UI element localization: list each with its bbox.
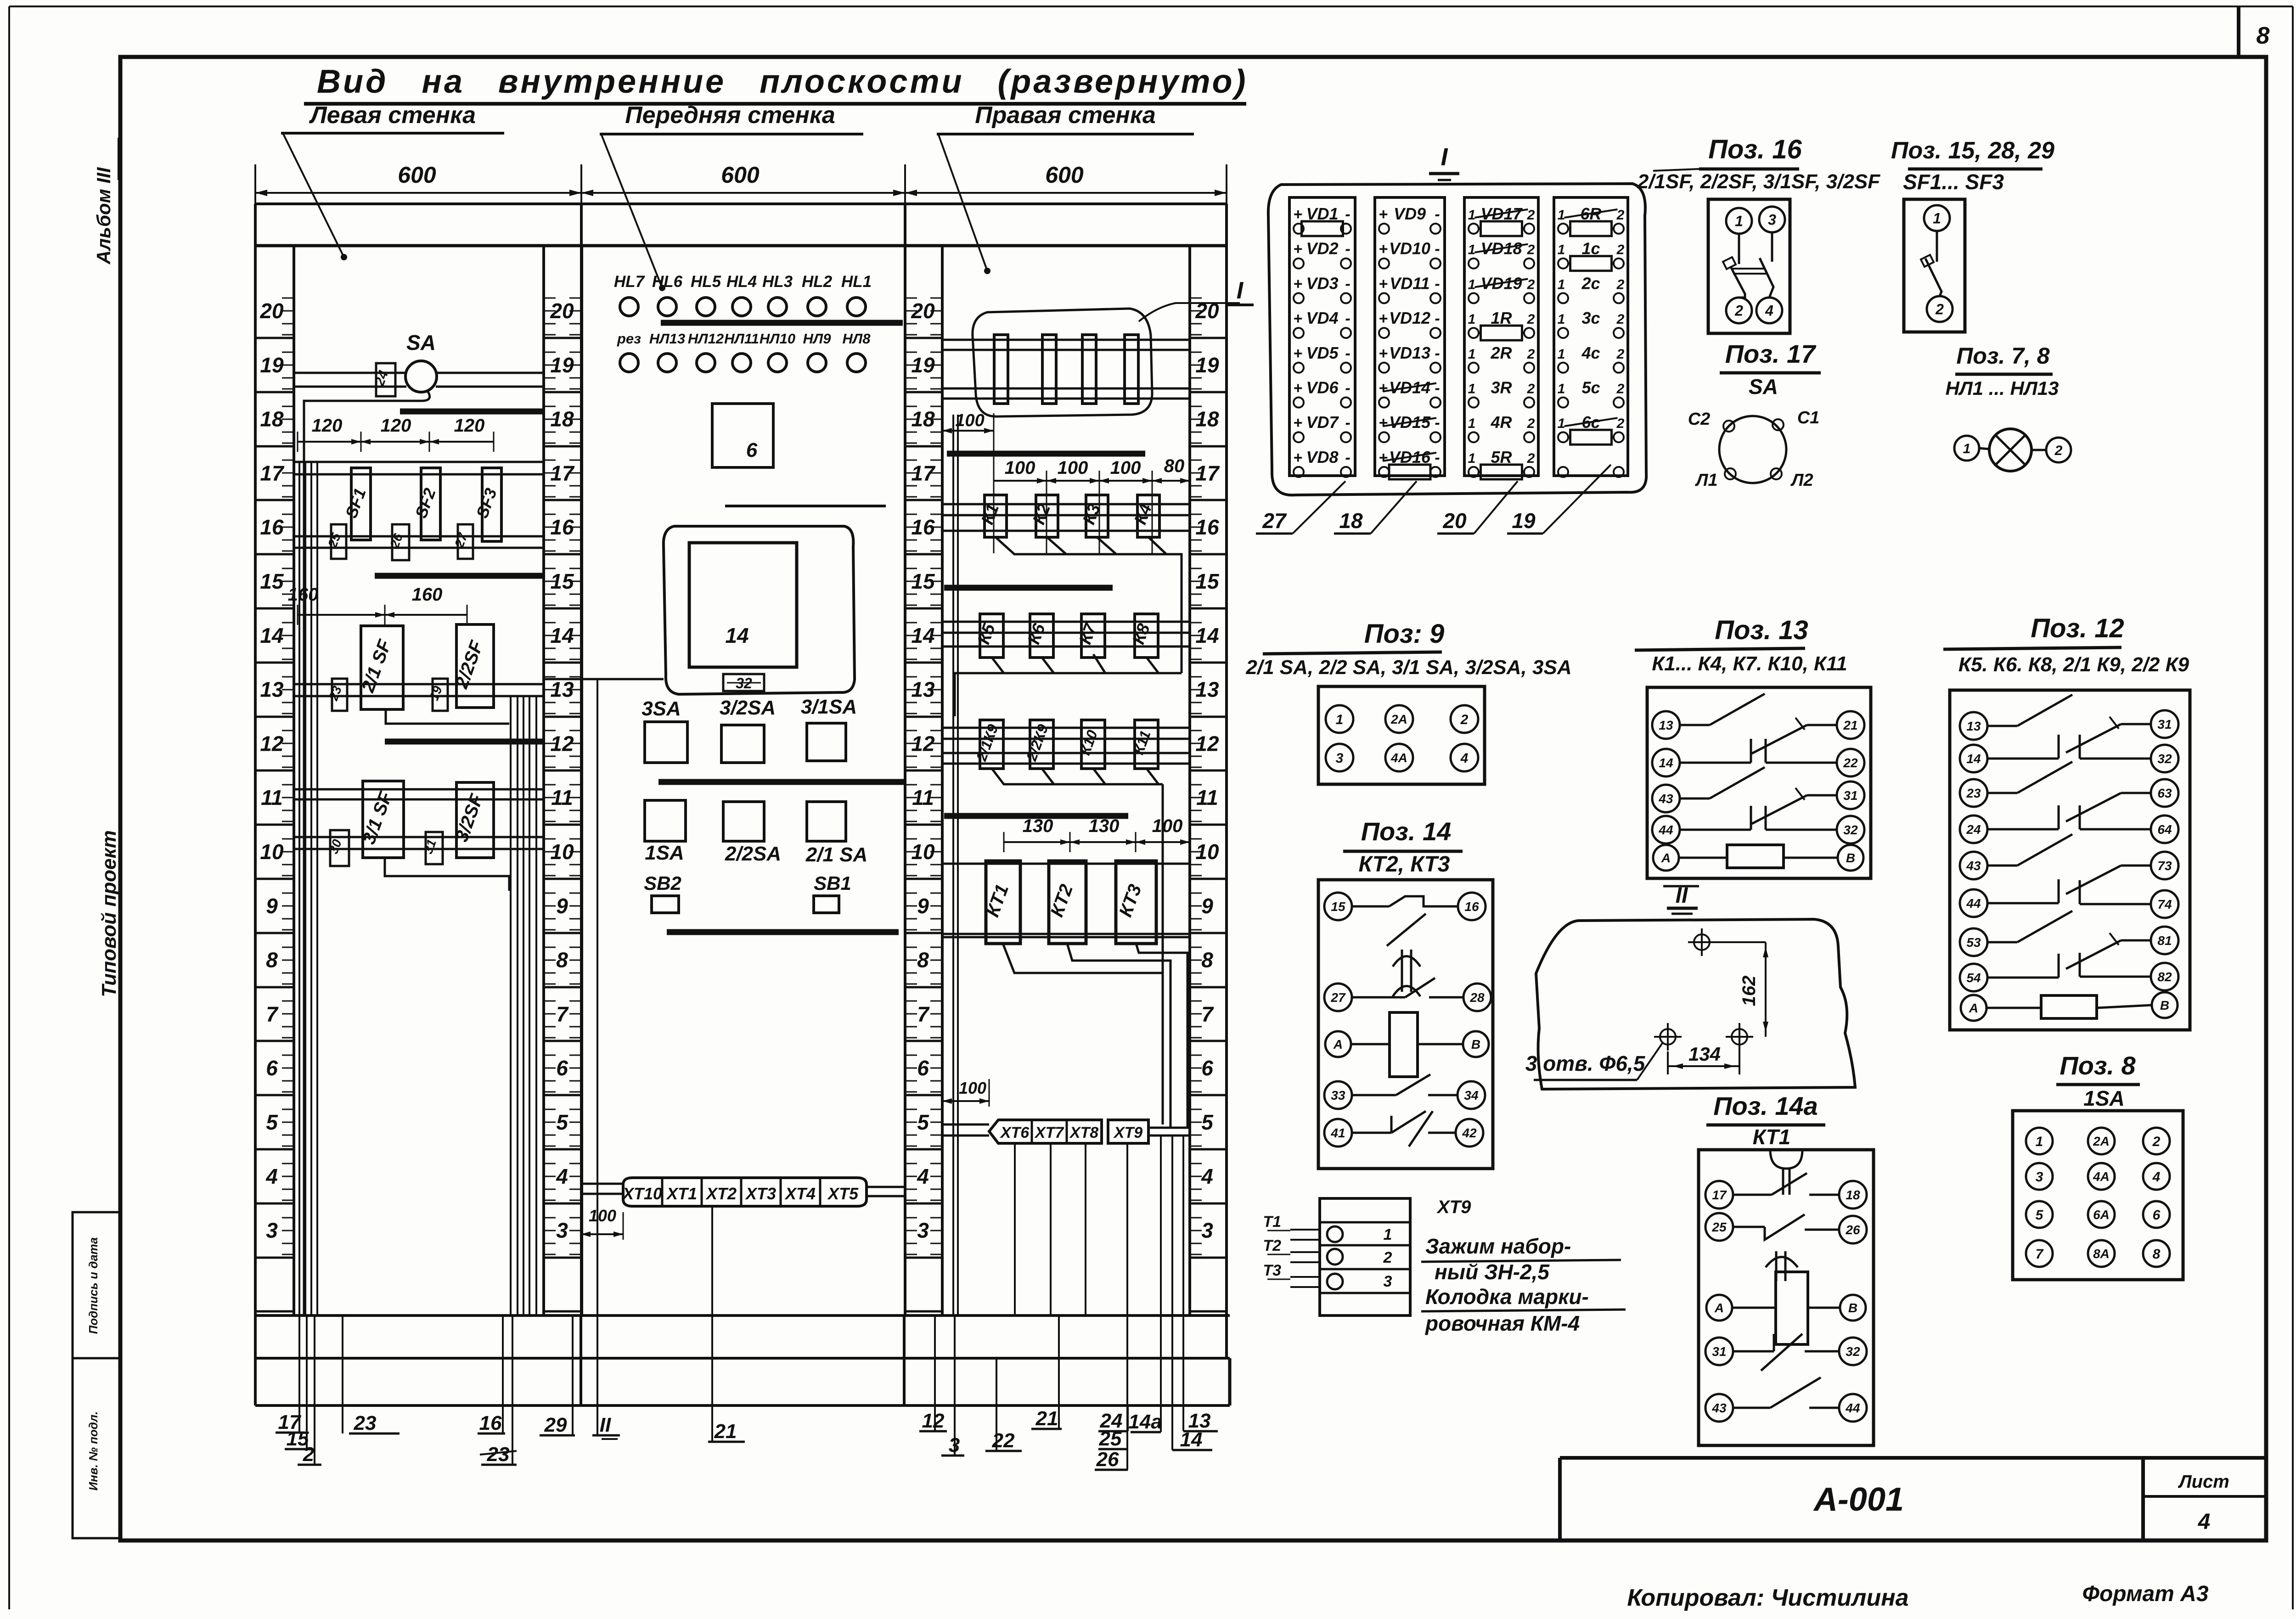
svg-text:100: 100 bbox=[1058, 458, 1088, 478]
svg-text:100: 100 bbox=[1005, 458, 1035, 478]
svg-text:HL7: HL7 bbox=[614, 273, 645, 291]
svg-text:21: 21 bbox=[1035, 1407, 1058, 1430]
svg-text:8: 8 bbox=[917, 948, 929, 972]
svg-text:63: 63 bbox=[2157, 786, 2172, 800]
relay К11 bbox=[1135, 720, 1158, 769]
svg-text:22: 22 bbox=[992, 1429, 1015, 1452]
svg-text:+: + bbox=[1379, 310, 1388, 327]
svg-text:В: В bbox=[1848, 1301, 1857, 1315]
svg-text:1: 1 bbox=[1384, 1226, 1392, 1243]
svg-text:HL6: HL6 bbox=[652, 273, 683, 291]
callout 29 bbox=[572, 1315, 574, 1435]
svg-text:21: 21 bbox=[714, 1420, 737, 1443]
svg-text:1: 1 bbox=[1468, 242, 1476, 258]
svg-text:-: - bbox=[1435, 345, 1440, 362]
relay К10 bbox=[1081, 720, 1105, 769]
coil Poz.13 bbox=[1680, 857, 1727, 859]
relay К7 bbox=[1081, 614, 1105, 658]
svg-text:28: 28 bbox=[1469, 990, 1485, 1005]
svg-text:1: 1 bbox=[1468, 451, 1476, 466]
switch 2/1SA bbox=[807, 802, 846, 841]
svg-text:4: 4 bbox=[556, 1164, 568, 1188]
svg-text:6: 6 bbox=[746, 439, 758, 461]
svg-text:16: 16 bbox=[1464, 899, 1479, 914]
svg-text:SB1: SB1 bbox=[814, 872, 851, 894]
svg-text:VD9: VD9 bbox=[1394, 204, 1426, 223]
svg-text:-: - bbox=[1435, 275, 1440, 292]
svg-text:I: I bbox=[1441, 143, 1448, 171]
svg-text:VD2: VD2 bbox=[1306, 239, 1338, 258]
right wire bundle bbox=[510, 696, 512, 1315]
svg-text:7: 7 bbox=[266, 1002, 279, 1026]
svg-text:43: 43 bbox=[1658, 792, 1673, 806]
KT leader chain bbox=[1003, 944, 1163, 1124]
svg-text:2: 2 bbox=[1616, 382, 1625, 397]
svg-text:+: + bbox=[1293, 380, 1302, 397]
svg-text:К1... К4, К7. К10, К11: К1... К4, К7. К10, К11 bbox=[1652, 652, 1847, 675]
svg-text:14: 14 bbox=[1659, 756, 1673, 770]
breaker SF2 bbox=[421, 468, 440, 540]
svg-text:9: 9 bbox=[917, 894, 929, 918]
svg-text:19: 19 bbox=[1512, 509, 1536, 533]
wires level 11 bbox=[294, 788, 544, 791]
time relay КТ3 bbox=[1116, 861, 1156, 944]
svg-text:-: - bbox=[1345, 275, 1350, 292]
fuse holder bbox=[1082, 335, 1096, 404]
svg-text:-: - bbox=[1345, 310, 1350, 327]
svg-text:-: - bbox=[1435, 310, 1440, 327]
svg-text:НЛ8: НЛ8 bbox=[843, 331, 871, 347]
fuse holder bbox=[994, 335, 1008, 404]
svg-text:5: 5 bbox=[266, 1110, 278, 1134]
heavy din rail 17r bbox=[947, 451, 1145, 457]
left wire bundle bbox=[298, 462, 300, 1315]
svg-text:Поз. 16: Поз. 16 bbox=[1708, 135, 1802, 164]
svg-text:4: 4 bbox=[2198, 1510, 2211, 1534]
svg-text:VD4: VD4 bbox=[1306, 309, 1338, 327]
svg-text:2: 2 bbox=[1460, 712, 1469, 727]
svg-text:8: 8 bbox=[1201, 948, 1213, 972]
svg-text:HL2: HL2 bbox=[802, 273, 833, 291]
svg-text:18: 18 bbox=[1339, 509, 1363, 533]
coil Poz.12 bbox=[1986, 1007, 2041, 1009]
svg-text:7: 7 bbox=[917, 1002, 930, 1026]
svg-text:11: 11 bbox=[261, 786, 283, 809]
svg-text:НЛ11: НЛ11 bbox=[724, 331, 759, 347]
svg-text:Поз. 14: Поз. 14 bbox=[1361, 817, 1451, 846]
switch 1SA bbox=[645, 800, 686, 841]
fuse holder bbox=[1042, 335, 1056, 404]
svg-text:XТ9: XТ9 bbox=[1436, 1197, 1471, 1217]
svg-text:1: 1 bbox=[1558, 208, 1565, 223]
svg-text:В: В bbox=[1471, 1037, 1480, 1051]
time relay detail KT1 bbox=[1699, 1150, 1874, 1445]
svg-text:HL5: HL5 bbox=[691, 273, 721, 291]
svg-text:120: 120 bbox=[381, 416, 411, 436]
dimension 600 lines bbox=[254, 164, 256, 207]
svg-text:7: 7 bbox=[1201, 1002, 1214, 1026]
box 25 bbox=[331, 524, 346, 559]
KT1 coil bbox=[1706, 1295, 1732, 1321]
dim 134 bbox=[1668, 1065, 1739, 1067]
svg-text:VD10: VD10 bbox=[1389, 239, 1430, 258]
callout 23 bbox=[342, 1315, 343, 1433]
outer sheet border bbox=[9, 6, 2293, 7]
svg-text:2/2SA: 2/2SA bbox=[725, 843, 781, 865]
panel bottom rails bbox=[255, 1314, 1230, 1317]
heavy din rail 9f bbox=[667, 929, 899, 935]
XT strip stub wires bbox=[581, 1183, 623, 1185]
callout 23 bbox=[512, 1315, 513, 1465]
mounting hole top bbox=[1694, 934, 1710, 950]
svg-text:2: 2 bbox=[1383, 1249, 1392, 1266]
breaker 2/2SF bbox=[456, 624, 494, 708]
svg-text:2А: 2А bbox=[2093, 1134, 2110, 1148]
callout 21 bbox=[711, 1405, 713, 1442]
box 23 bbox=[332, 679, 347, 711]
svg-text:3/1SA: 3/1SA bbox=[801, 696, 857, 718]
svg-text:VD8: VD8 bbox=[1306, 448, 1338, 467]
svg-text:-: - bbox=[1435, 449, 1440, 467]
svg-text:1SA: 1SA bbox=[2083, 1086, 2124, 1110]
svg-text:А: А bbox=[1661, 851, 1671, 865]
svg-text:Альбом III: Альбом III bbox=[93, 167, 114, 264]
svg-text:23: 23 bbox=[1966, 786, 1981, 800]
callout 13 bbox=[1182, 1136, 1184, 1431]
svg-text:42: 42 bbox=[1462, 1126, 1477, 1140]
relay К3 bbox=[1086, 495, 1108, 537]
svg-text:-: - bbox=[1345, 206, 1350, 223]
svg-text:2: 2 bbox=[1616, 312, 1625, 327]
svg-text:44: 44 bbox=[1658, 823, 1673, 837]
svg-text:1: 1 bbox=[1558, 277, 1565, 292]
svg-text:27: 27 bbox=[1330, 990, 1346, 1005]
svg-text:3: 3 bbox=[266, 1219, 278, 1242]
svg-text:20: 20 bbox=[1442, 509, 1467, 533]
margin bottom boxes bbox=[73, 1212, 120, 1538]
svg-text:+: + bbox=[1293, 241, 1302, 258]
mounting hole left bbox=[1660, 1029, 1676, 1045]
diode terminal strip bbox=[1375, 197, 1445, 476]
svg-text:Копировал: Чистилина: Копировал: Чистилина bbox=[1627, 1585, 1908, 1611]
svg-text:21: 21 bbox=[1843, 718, 1857, 732]
svg-text:Т3: Т3 bbox=[1263, 1262, 1281, 1279]
svg-text:1: 1 bbox=[1963, 441, 1971, 456]
svg-text:XT6: XT6 bbox=[1000, 1124, 1030, 1141]
svg-text:НЛ9: НЛ9 bbox=[803, 331, 832, 347]
svg-text:2: 2 bbox=[1527, 416, 1535, 431]
svg-text:C1: C1 bbox=[1797, 408, 1820, 427]
wire corner below 2/1SF bbox=[386, 709, 509, 724]
svg-text:6: 6 bbox=[917, 1056, 929, 1080]
svg-text:-: - bbox=[1345, 380, 1350, 397]
svg-text:34: 34 bbox=[1464, 1088, 1479, 1102]
svg-text:160: 160 bbox=[288, 585, 319, 605]
svg-text:8: 8 bbox=[2257, 22, 2270, 49]
svg-text:1: 1 bbox=[1735, 213, 1743, 230]
svg-text:2: 2 bbox=[1935, 301, 1944, 318]
svg-text:2с: 2с bbox=[1581, 274, 1600, 292]
svg-text:25: 25 bbox=[1099, 1428, 1122, 1450]
svg-text:43: 43 bbox=[1711, 1401, 1727, 1415]
svg-text:9: 9 bbox=[1201, 894, 1213, 918]
heavy din rail 18 bbox=[400, 409, 542, 415]
svg-text:14: 14 bbox=[725, 624, 748, 647]
vertical wires right panel left edge bbox=[952, 415, 954, 1315]
svg-text:15: 15 bbox=[1331, 899, 1345, 914]
svg-text:19: 19 bbox=[260, 353, 284, 377]
wires below XT strip bbox=[1014, 1143, 1016, 1315]
svg-text:3: 3 bbox=[1768, 212, 1776, 228]
svg-text:3: 3 bbox=[2036, 1169, 2043, 1185]
svg-text:22: 22 bbox=[1843, 756, 1858, 770]
svg-text:44: 44 bbox=[1845, 1401, 1860, 1415]
svg-text:160: 160 bbox=[412, 585, 443, 605]
XT6 stub wires bbox=[942, 1124, 989, 1126]
svg-text:НЛ13: НЛ13 bbox=[649, 331, 685, 347]
svg-text:4: 4 bbox=[1460, 751, 1469, 766]
wires level 19r bbox=[942, 339, 1190, 341]
svg-text:100: 100 bbox=[955, 411, 984, 430]
svg-text:31: 31 bbox=[1712, 1344, 1726, 1359]
svg-text:А: А bbox=[1969, 1001, 1978, 1015]
svg-text:3с: 3с bbox=[1581, 309, 1600, 327]
panel scale rulers bbox=[254, 246, 257, 1315]
cam switch SA rear view bbox=[1719, 416, 1786, 483]
box 31 bbox=[426, 832, 443, 864]
svg-text:-: - bbox=[1435, 380, 1440, 397]
svg-text:25: 25 bbox=[1711, 1220, 1727, 1234]
svg-text:НЛ10: НЛ10 bbox=[760, 331, 795, 347]
svg-text:Поз. 17: Поз. 17 bbox=[1725, 339, 1817, 368]
relay К5 bbox=[980, 614, 1003, 658]
time relay КТ1 bbox=[986, 861, 1020, 944]
svg-text:I: I bbox=[1237, 277, 1244, 304]
svg-text:31: 31 bbox=[2157, 717, 2172, 731]
heavy din rail 15 bbox=[375, 573, 542, 579]
svg-text:+: + bbox=[1293, 449, 1302, 467]
svg-text:2/1 SA, 2/2 SA, 3/1 SA, 3/2SA,: 2/1 SA, 2/2 SA, 3/1 SA, 3/2SA, 3SA bbox=[1245, 656, 1571, 679]
svg-text:44: 44 bbox=[1966, 896, 1981, 911]
leader to right wall bbox=[939, 135, 987, 271]
detail II mounting plate bbox=[1536, 919, 1855, 1089]
svg-text:4А: 4А bbox=[1390, 751, 1407, 765]
svg-text:16: 16 bbox=[260, 515, 284, 539]
leader to front wall bbox=[602, 135, 662, 288]
callout 14а bbox=[1160, 1136, 1162, 1432]
svg-text:73: 73 bbox=[2157, 859, 2172, 873]
svg-text:4: 4 bbox=[1201, 1164, 1213, 1188]
svg-text:HL4: HL4 bbox=[726, 273, 757, 291]
relay К4 bbox=[1137, 495, 1159, 537]
svg-text:1: 1 bbox=[1336, 712, 1344, 727]
callout 17 bbox=[298, 1315, 300, 1433]
svg-text:32: 32 bbox=[1843, 823, 1858, 837]
box 27 bbox=[458, 524, 473, 559]
time relay КТ2 bbox=[1049, 861, 1086, 944]
svg-text:18: 18 bbox=[260, 407, 284, 431]
svg-text:1SA: 1SA bbox=[645, 842, 684, 864]
svg-text:5: 5 bbox=[1201, 1110, 1214, 1134]
svg-text:ный ЗН-2,5: ный ЗН-2,5 bbox=[1435, 1260, 1550, 1284]
relay leader chain K9-K11 bbox=[992, 769, 1163, 784]
svg-text:НЛ1 ... НЛ13: НЛ1 ... НЛ13 bbox=[1946, 377, 2059, 399]
svg-text:II: II bbox=[600, 1414, 611, 1436]
svg-text:1: 1 bbox=[1558, 347, 1565, 362]
terminal strip XT10..XT5 bbox=[623, 1178, 867, 1206]
svg-text:КТ1: КТ1 bbox=[1753, 1125, 1791, 1149]
svg-text:32: 32 bbox=[1846, 1344, 1860, 1359]
svg-text:Формат А3: Формат А3 bbox=[2082, 1582, 2208, 1606]
svg-text:6: 6 bbox=[266, 1056, 278, 1080]
svg-text:100: 100 bbox=[1110, 458, 1141, 478]
breaker 2/1SF bbox=[361, 626, 403, 709]
svg-text:XT3: XT3 bbox=[745, 1184, 776, 1203]
terminal XT9 detail bbox=[1320, 1198, 1410, 1315]
svg-text:7: 7 bbox=[2036, 1247, 2044, 1262]
svg-text:9: 9 bbox=[556, 894, 568, 918]
svg-text:130: 130 bbox=[1089, 816, 1120, 836]
relay К6 bbox=[1030, 614, 1053, 658]
svg-text:HL3: HL3 bbox=[762, 273, 793, 291]
svg-text:3/2SA: 3/2SA bbox=[720, 697, 776, 719]
title block bbox=[1560, 1456, 2266, 1460]
svg-text:Поз. 7, 8: Поз. 7, 8 bbox=[1956, 343, 2049, 369]
switch rear detail 1SA bbox=[2013, 1111, 2183, 1280]
svg-text:VD6: VD6 bbox=[1306, 378, 1339, 397]
svg-text:13: 13 bbox=[1188, 1410, 1211, 1432]
svg-text:А-001: А-001 bbox=[1813, 1481, 1904, 1518]
callout II bbox=[597, 1405, 598, 1435]
breaker SF1 bbox=[351, 468, 371, 540]
svg-text:17: 17 bbox=[260, 461, 285, 485]
svg-text:-: - bbox=[1345, 449, 1350, 467]
svg-text:XT1: XT1 bbox=[666, 1184, 697, 1203]
device 14 screen bbox=[689, 543, 797, 667]
wires level 10r bbox=[942, 863, 1190, 865]
svg-text:8: 8 bbox=[266, 948, 278, 972]
svg-text:12: 12 bbox=[260, 731, 284, 755]
svg-text:Типовой проект: Типовой проект bbox=[98, 830, 120, 997]
svg-text:Поз. 13: Поз. 13 bbox=[1715, 615, 1808, 645]
svg-text:XT4: XT4 bbox=[784, 1184, 816, 1203]
svg-text:+: + bbox=[1293, 345, 1302, 362]
svg-text:13: 13 bbox=[1659, 718, 1673, 732]
svg-text:2: 2 bbox=[303, 1443, 315, 1466]
svg-text:1: 1 bbox=[2036, 1134, 2043, 1149]
svg-text:НЛ12: НЛ12 bbox=[688, 331, 724, 347]
svg-text:Поз. 12: Поз. 12 bbox=[2031, 613, 2124, 643]
svg-text:31: 31 bbox=[1843, 788, 1857, 803]
relay 2/2К9 bbox=[1030, 720, 1053, 769]
svg-text:2: 2 bbox=[1527, 451, 1535, 466]
svg-text:1: 1 bbox=[1933, 210, 1941, 227]
relay 2/1К9 bbox=[980, 720, 1003, 769]
breaker 3/2SF bbox=[456, 782, 494, 858]
svg-text:3: 3 bbox=[1336, 751, 1344, 766]
wires level 12r bbox=[942, 727, 1190, 729]
callout 15 bbox=[306, 1315, 308, 1449]
svg-text:18: 18 bbox=[1846, 1188, 1860, 1202]
fuse holder bbox=[1125, 335, 1138, 404]
svg-text:3: 3 bbox=[1384, 1273, 1392, 1290]
svg-text:2: 2 bbox=[1527, 382, 1535, 397]
detail I plate outline bbox=[1268, 184, 1646, 495]
callout 24 bbox=[1127, 1405, 1129, 1431]
box 26 bbox=[392, 524, 409, 560]
svg-text:Правая стенка: Правая стенка bbox=[975, 102, 1156, 129]
svg-text:24: 24 bbox=[1966, 822, 1981, 837]
svg-text:2А: 2А bbox=[1390, 712, 1407, 726]
svg-text:+: + bbox=[1379, 449, 1388, 467]
diode terminal strip bbox=[1289, 197, 1355, 476]
svg-text:64: 64 bbox=[2157, 822, 2172, 837]
svg-text:В: В bbox=[2160, 998, 2169, 1012]
svg-text:К5. К6. К8, 2/1 К9, 2/2 К9: К5. К6. К8, 2/1 К9, 2/2 К9 bbox=[1958, 653, 2189, 676]
svg-text:14: 14 bbox=[1966, 752, 1981, 766]
svg-text:Т2: Т2 bbox=[1263, 1237, 1281, 1254]
svg-text:+: + bbox=[1379, 275, 1388, 292]
svg-text:100: 100 bbox=[1152, 816, 1183, 836]
svg-text:Поз. 15, 28, 29: Поз. 15, 28, 29 bbox=[1891, 137, 2054, 164]
terminal strip XT6..XT9 bbox=[989, 1120, 1102, 1143]
svg-text:54: 54 bbox=[1966, 971, 1981, 985]
svg-text:Т1: Т1 bbox=[1263, 1213, 1281, 1231]
svg-text:VD7: VD7 bbox=[1306, 413, 1339, 432]
svg-text:+: + bbox=[1293, 275, 1302, 292]
svg-text:14а: 14а bbox=[1128, 1411, 1162, 1433]
wire corner below 3/1SF bbox=[385, 858, 509, 891]
box 24 bbox=[376, 363, 395, 396]
svg-text:VD5: VD5 bbox=[1306, 343, 1339, 362]
svg-text:2: 2 bbox=[1616, 242, 1625, 258]
svg-text:+: + bbox=[1379, 206, 1388, 223]
svg-text:1: 1 bbox=[1468, 347, 1476, 362]
svg-text:Колодка марки-: Колодка марки- bbox=[1425, 1285, 1589, 1309]
svg-text:4: 4 bbox=[917, 1164, 929, 1188]
apparatus 6 bbox=[712, 404, 773, 467]
svg-text:8: 8 bbox=[556, 948, 568, 972]
heavy din rail 20 bbox=[661, 320, 903, 326]
svg-text:33: 33 bbox=[1331, 1088, 1345, 1102]
svg-text:10: 10 bbox=[260, 840, 284, 864]
leader to left wall bbox=[283, 134, 344, 257]
svg-text:13: 13 bbox=[1966, 719, 1981, 733]
relay detail Poz.12 bbox=[1950, 690, 2190, 1030]
svg-text:1: 1 bbox=[1468, 208, 1476, 223]
callout 16 bbox=[502, 1315, 504, 1433]
svg-text:3SA: 3SA bbox=[642, 697, 681, 720]
svg-text:VD13: VD13 bbox=[1389, 343, 1430, 362]
svg-text:134: 134 bbox=[1688, 1043, 1721, 1065]
diode terminal strip bbox=[1554, 197, 1628, 476]
svg-text:2: 2 bbox=[1616, 347, 1625, 362]
svg-text:1: 1 bbox=[1558, 416, 1565, 431]
svg-text:100: 100 bbox=[959, 1079, 986, 1097]
relay К2 bbox=[1036, 495, 1058, 537]
svg-text:3: 3 bbox=[556, 1219, 568, 1242]
svg-text:14: 14 bbox=[260, 624, 283, 647]
svg-text:600: 600 bbox=[1045, 162, 1084, 188]
svg-text:Л2: Л2 bbox=[1790, 471, 1813, 490]
relay detail Poz.13 bbox=[1647, 687, 1871, 878]
box 30 bbox=[330, 830, 349, 866]
svg-text:2: 2 bbox=[2152, 1134, 2161, 1149]
svg-text:Вид на внутренние плоскости: Вид на внутренние плоскости (развернуто) bbox=[317, 63, 1248, 100]
svg-text:Поз. 8: Поз. 8 bbox=[2060, 1051, 2136, 1080]
svg-text:Л1: Л1 bbox=[1694, 471, 1717, 490]
wires level 14r bbox=[942, 621, 1190, 623]
